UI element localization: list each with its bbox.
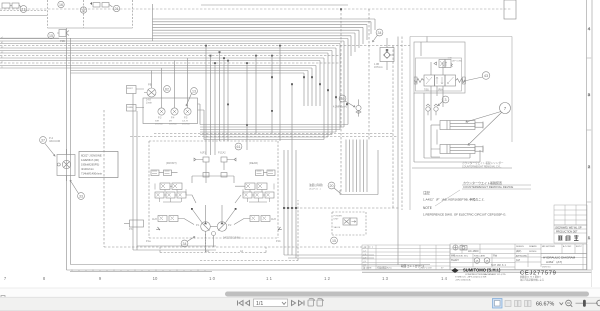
pilot block: FRNT sub box [127,86,145,112]
engine spec text box [79,152,118,178]
svg-text:15T/min: 15T/min [155,123,164,125]
left drain bundle down [133,94,216,251]
drawing title text [542,256,576,269]
svg-text:SYMBOLS: +BFS.116(15) 2.WR: SYMBOLS: +BFS.116(15) 2.WR [455,277,487,279]
svg-text:(SaePum→): (SaePum→) [309,189,321,191]
balloon 13 [186,88,197,106]
small fitting left [124,220,144,227]
svg-text:195kW(265PS): 195kW(265PS) [81,163,99,167]
svg-text:T(B): T(B) [424,89,429,92]
faint window separators right [591,0,593,287]
right servo regulator group [226,170,276,225]
svg-text:39: 39 [341,97,345,101]
svg-text:30R: 30R [155,121,159,123]
main pump cluster dashed box [149,141,278,238]
cylinder 1 (counterweight) [431,121,483,130]
horizontal scrollbar thumb [225,292,589,297]
left servo regulator group [151,170,202,225]
svg-text:AUX: AUX [152,218,157,221]
balloon 11 [19,5,27,12]
svg-text:1 2: 1 2 [324,276,330,281]
shuttle valves pair [426,104,438,115]
balloon 20 with oil label [309,182,340,193]
cluster center fittings [203,173,209,178]
svg-text:(REAR): (REAR) [249,161,258,165]
tank box bottom [71,264,431,266]
arrows on dashed bottom [156,227,282,230]
frame column numbers ruler [4,276,448,281]
svg-text:DESIGN: DESIGN [516,246,524,248]
heading counterweight device [463,180,513,189]
svg-text:FRNT: FRNT [127,88,133,90]
U-loop bottom [340,150,378,195]
svg-text:43: 43 [484,74,488,78]
balloon 15b [331,237,338,244]
notes block [423,190,506,217]
svg-text:34: 34 [378,31,382,35]
nav next buttons [292,301,305,306]
junction dots on bus crossings [271,8,348,105]
wire from valve to left [0,37,59,39]
balloon 34 (bottom) [181,237,195,247]
center-right drain bundle verticals [284,150,296,258]
filter F2 (top, right of box) [90,2,109,7]
regulator valve marks left [152,171,182,220]
svg-text:POWER: POWER [334,216,343,218]
svg-text:1 1: 1 1 [266,276,272,281]
svg-text:34: 34 [183,242,187,246]
long dashed pilot bus y9 [0,8,512,10]
svg-text:33: 33 [79,195,83,199]
svg-text:VALVE: VALVE [334,226,341,229]
svg-text:1 3: 1 3 [382,276,388,281]
svg-text:DWG NO.: DWG NO. [542,267,551,269]
junction dots row [283,207,297,209]
svg-text:PRODUCTION DET: PRODUCTION DET [556,230,578,233]
svg-text:2WAY: 2WAY [127,106,133,109]
svg-text:A.T.C302: A.T.C302 [563,245,572,248]
svg-text:3: 3 [445,98,447,102]
relief valve mid (balloon 39) [333,95,361,117]
cluster top feed lines [206,46,224,156]
svg-text:REV 2.CW: REV 2.CW [421,268,433,270]
dashed buses [0,45,410,47]
svg-text:(P)A: (P)A [438,89,443,92]
cylinder group bottom box [414,93,480,162]
zoom slider [576,302,599,304]
gear pump unit box [57,149,75,181]
svg-text:66.67%: 66.67% [536,302,554,308]
zoom out icon [566,300,573,307]
toolbar background [0,297,600,311]
svg-text:CEJ277579: CEJ277579 [520,270,557,276]
svg-text:20: 20 [330,184,334,188]
svg-text:/2100r/min: /2100r/min [81,167,94,171]
balloon 43 [464,72,490,82]
title block small symbols [453,245,479,253]
main pumps P1 P2 [196,222,232,236]
sidebar collapsed tab bottom-left [1,296,9,301]
svg-text:UNIT: UNIT [334,218,340,220]
svg-text:取図 コントロワー4: 取図 コントロワー4 [401,264,424,268]
svg-text:15: 15 [332,239,336,243]
svg-text:1/1: 1/1 [256,301,263,307]
check valve unit top right (balloon 34) [373,29,383,42]
svg-text:HYDRAULIC DIAGRAM: HYDRAULIC DIAGRAM [543,256,576,260]
top-center line (clipped component row bottom) [201,4,348,6]
svg-text:DRAWN: DRAWN [529,245,537,248]
top dashed component box [48,0,133,28]
view mode icons [493,299,532,309]
svg-text:4R: 4R [169,121,172,123]
svg-text:(S02WWE) WE WL SP: (S02WWE) WE WL SP [555,226,582,230]
balloon 62 [164,86,171,93]
svg-text:油量は印刷): 油量は印刷) [309,183,323,187]
long dashed assembly enclosure [104,110,373,247]
svg-text:DR2656: DR2656 [529,251,537,253]
revision table (bottom left of title block) [362,245,450,270]
wire verticals descending mid band [228,46,280,151]
below-frame tiny notes [455,275,544,282]
cluster inner connections left [155,184,186,203]
relief valve (under top box) [57,30,69,44]
svg-text:10T/min: 10T/min [169,123,178,125]
wires pilot block top connections [144,58,188,108]
wire solid return top-left [0,15,47,17]
svg-text:122E5617-(00): 122E5617-(00) [81,158,99,162]
filter F1 (top left) [2,3,19,8]
balloon 37 [40,136,60,156]
ruler tick strip [70,270,212,272]
regulator valve marks right [245,171,274,220]
svg-text:1 0: 1 0 [209,276,215,281]
right assembly mid box [414,42,465,93]
svg-text:4.2MPa(cm²): 4.2MPa(cm²) [333,106,347,109]
wire vertical x292 [291,84,293,150]
svg-text:注記: 注記 [423,190,430,195]
cluster small top fittings [194,157,236,162]
svg-text:1 4: 1 4 [441,276,447,281]
svg-text:15: 15 [49,34,53,38]
svg-text:P.1a: P.1a [146,240,151,243]
pilot block enclosure [143,98,198,124]
svg-text:12L.R: 12L.R [182,121,188,123]
svg-text:HC-1800: HC-1800 [468,249,479,253]
svg-text:P1CA2: P1CA2 [218,152,226,155]
pilot pump circle PB [146,83,156,105]
vertical bundle B down to U-loop [346,140,367,193]
balloon 7 [466,103,511,146]
dashed vertical long (x341) [340,9,342,194]
solenoid pilot valve [434,58,462,68]
wire dashed pilot line top-left [0,10,47,12]
nav first-page button [238,301,250,306]
svg-text:1.REFERENCE DWG. OF ELECTRIC C: 1.REFERENCE DWG. OF ELECTRIC CIRCUIT CEP… [423,213,506,217]
svg-text:(FRONT): (FRONT) [166,161,177,165]
title block [450,244,587,270]
bus port labels left [1,37,4,69]
cluster inner connections right [243,184,274,203]
frame inner-left vertical (tank box left edge) [70,38,72,265]
right assembly outer box [410,37,512,211]
svg-text:VACUUM: VACUUM [49,139,60,143]
frame bottom border double line [67,270,593,272]
frame right border double line [587,0,593,270]
svg-text:10: 10 [153,276,158,281]
svg-text:APPROVED: APPROVED [516,255,528,258]
dashed horizontal mid right [284,207,400,209]
svg-text:SUMITOMO (S.H.I.): SUMITOMO (S.H.I.) [463,268,501,273]
svg-text:L/min: L/min [146,101,153,104]
cluster internal vertical wires [206,162,225,252]
svg-text:11: 11 [22,8,26,12]
svg-text:(SP CON): (SP CON) [452,61,462,63]
svg-text:A1F1: A1F1 [200,152,206,155]
wire vertical x272 [271,56,273,134]
dashed return box bottom [160,247,266,253]
svg-text:P.1b: P.1b [276,240,281,243]
page number box [254,299,288,307]
balloon 33 [70,180,84,199]
check valve symbol [374,38,394,70]
svg-text:80257: 80257 [576,246,582,248]
main directional valve [414,75,465,92]
dashed vertical x369 [368,9,370,140]
svg-text:KIND-CAPA: KIND-CAPA [474,255,485,258]
svg-text:+BF2.11B(15) A: +BF2.11B(15) A [455,278,471,281]
svg-text:AUX: AUX [271,218,276,221]
dashed verticals right margin [393,37,402,211]
bus corner turns down (vertical bundle A) [351,19,375,56]
svg-text:16: 16 [59,3,63,7]
svg-text:6D22˝-J ENGINE: 6D22˝-J ENGINE [81,154,102,158]
svg-text:NOTE: NOTE [423,206,432,210]
svg-text:62: 62 [165,88,169,92]
svg-text:16T/min: 16T/min [374,66,383,69]
wires pilot block right connections [198,104,205,140]
svg-text:37: 37 [41,139,45,143]
small clipped rect top right [504,0,516,19]
circled stamps in title block [474,258,506,267]
svg-text:COUNTERWEIGHT REMOVAL CYL.: COUNTERWEIGHT REMOVAL CYL. [462,165,502,168]
balloon 3 [438,96,449,105]
return-line stack from x152 [152,4,154,41]
node dashed vertical inside top box [83,0,85,28]
balloon 21 [109,5,120,12]
frame left border [66,28,68,270]
approval table top right [554,205,587,243]
svg-text:COUNTERWEIGHT REMOVAL DEVICE: COUNTERWEIGHT REMOVAL DEVICE [463,185,513,189]
balloon 61 [235,143,242,150]
frame row separator ticks [587,58,593,202]
svg-text:MR.SMT2/WR: MR.SMT2/WR [542,246,555,248]
horizontal scrollbar track [0,288,600,297]
balloon 16 [58,1,64,7]
svg-text:240225D1(9/8A): 240225D1(9/8A) [223,237,241,240]
bundle turning left to pilot cluster [200,125,348,140]
svg-text:61: 61 [237,145,241,149]
maker logo and name [452,268,507,277]
right assembly inner box [416,58,462,91]
rotate icons [308,298,324,306]
svg-text:13: 13 [192,90,196,94]
main horizontal bus band [0,39,348,69]
svg-text:714kW/1400r/min: 714kW/1400r/min [81,172,103,176]
balloon 22 [80,7,86,13]
balloon 15 [48,32,54,38]
power unit valve dashed box [332,212,366,235]
gear pump trio [155,108,191,126]
svg-text:15T/min: 15T/min [182,123,191,125]
svg-text:PB: PB [148,83,152,87]
svg-text:A4S2゛(A7): A4S2゛(A7) [546,260,562,264]
valve down wires [431,86,443,121]
cylinder 2 (counterweight) [431,125,483,157]
zoom-in icon (clipped at edge) [597,300,600,306]
svg-text:1.A4S2゛(F゛)AB, KER165EF′9B, 参照: 1.A4S2゛(F゛)AB, KER165EF′9B, 参照のこと. [423,197,485,202]
